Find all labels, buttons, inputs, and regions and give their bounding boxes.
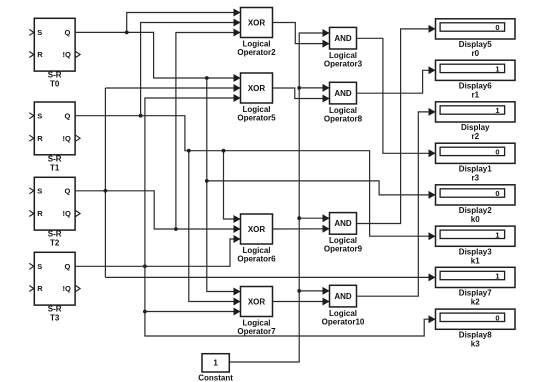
svg-text:k3: k3: [471, 339, 480, 348]
svg-text:0: 0: [495, 189, 499, 198]
svg-text:Q: Q: [64, 111, 70, 120]
svg-text:0: 0: [495, 313, 499, 322]
svg-text:r1: r1: [471, 90, 479, 99]
svg-text:1: 1: [495, 272, 499, 281]
svg-text:Display5: Display5: [459, 40, 492, 49]
svg-text:1: 1: [213, 359, 218, 368]
svg-text:Operator7: Operator7: [237, 327, 276, 336]
svg-text:R: R: [37, 209, 43, 218]
svg-text:AND: AND: [334, 34, 352, 43]
svg-text:S-R: S-R: [48, 71, 62, 80]
svg-text:0: 0: [495, 147, 499, 156]
svg-text:Q: Q: [64, 28, 70, 37]
svg-text:!Q: !Q: [62, 284, 70, 293]
svg-text:Display6: Display6: [459, 81, 492, 90]
svg-text:r2: r2: [471, 132, 479, 141]
svg-text:1: 1: [495, 64, 499, 73]
svg-text:T2: T2: [50, 239, 60, 248]
svg-text:R: R: [37, 134, 43, 143]
svg-text:S-R: S-R: [48, 154, 62, 163]
svg-text:AND: AND: [334, 292, 352, 301]
svg-text:Q: Q: [64, 262, 70, 271]
svg-text:AND: AND: [334, 89, 352, 98]
svg-text:Display7: Display7: [459, 289, 492, 298]
svg-text:1: 1: [495, 230, 499, 239]
svg-text:R: R: [37, 284, 43, 293]
svg-text:S-R: S-R: [48, 305, 62, 314]
svg-text:1: 1: [495, 106, 499, 115]
svg-text:k2: k2: [471, 298, 480, 307]
svg-text:Operator2: Operator2: [237, 48, 276, 57]
svg-text:Display3: Display3: [459, 247, 492, 256]
svg-text:S-R: S-R: [48, 230, 62, 239]
svg-text:Operator3: Operator3: [324, 60, 363, 69]
svg-text:k0: k0: [471, 215, 480, 224]
svg-text:!Q: !Q: [62, 50, 70, 59]
svg-text:0: 0: [495, 23, 499, 32]
svg-text:XOR: XOR: [248, 297, 266, 306]
svg-text:Display8: Display8: [459, 330, 492, 339]
svg-text:Operator9: Operator9: [324, 245, 363, 254]
svg-text:XOR: XOR: [248, 225, 266, 234]
svg-text:S: S: [37, 111, 42, 120]
svg-text:Operator8: Operator8: [324, 114, 363, 123]
svg-text:S: S: [37, 28, 42, 37]
svg-text:T3: T3: [50, 314, 60, 323]
svg-text:T1: T1: [50, 163, 60, 172]
svg-text:XOR: XOR: [248, 18, 266, 27]
svg-text:r0: r0: [471, 49, 479, 58]
svg-text:!Q: !Q: [62, 134, 70, 143]
svg-text:r3: r3: [471, 173, 479, 182]
svg-text:Q: Q: [64, 186, 70, 195]
svg-text:T0: T0: [50, 80, 60, 89]
svg-text:Display: Display: [461, 123, 490, 132]
svg-text:S: S: [37, 186, 42, 195]
svg-text:AND: AND: [334, 219, 352, 228]
svg-text:XOR: XOR: [248, 84, 266, 93]
svg-text:S: S: [37, 262, 42, 271]
svg-text:Display1: Display1: [459, 164, 492, 173]
svg-text:Operator6: Operator6: [237, 255, 276, 264]
svg-text:k1: k1: [471, 256, 480, 265]
svg-text:Constant: Constant: [198, 374, 233, 382]
svg-text:Operator10: Operator10: [322, 317, 365, 326]
svg-text:Operator5: Operator5: [237, 114, 276, 123]
svg-text:R: R: [37, 50, 43, 59]
svg-text:!Q: !Q: [62, 209, 70, 218]
svg-text:Display2: Display2: [459, 206, 492, 215]
